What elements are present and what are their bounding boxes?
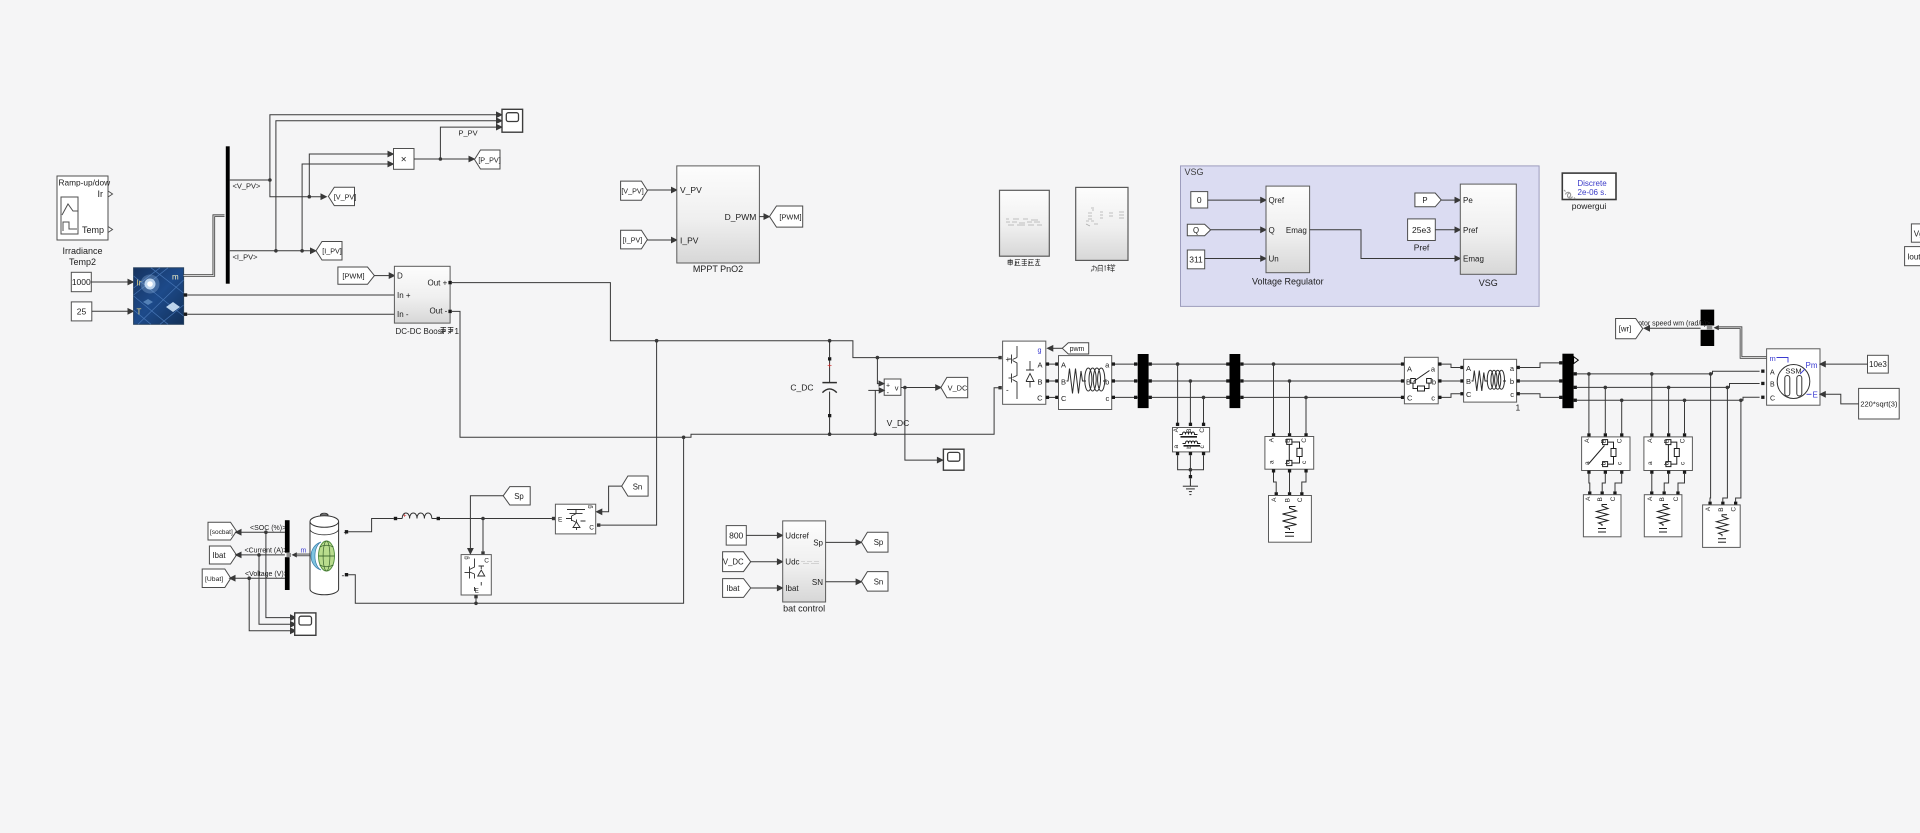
svg-text:Ibat: Ibat [727, 584, 741, 593]
scope V_DC [943, 449, 964, 470]
svg-text:Ibat: Ibat [213, 551, 227, 560]
svg-text:Pe: Pe [1463, 196, 1473, 205]
battery - port [342, 571, 349, 581]
wire I_PV net [230, 118, 502, 253]
wires breaker1 to RLC branch [1442, 364, 1461, 397]
svg-text:c: c [1106, 394, 1110, 403]
measurement bus bar 2 [1138, 354, 1152, 408]
svg-text:b: b [1510, 377, 1514, 386]
wire Current to Ibat and scope [236, 552, 296, 627]
wire P to Pe [1441, 198, 1460, 203]
ground symbol [1183, 478, 1198, 494]
goto tag Ibat [209, 546, 236, 564]
svg-text:B: B [1285, 498, 1292, 502]
wire 800 to Udcref [746, 533, 782, 538]
svg-text:c: c [1431, 394, 1435, 403]
svg-text:P: P [1422, 196, 1427, 205]
subsystem power calculation (CJK label) [1076, 187, 1128, 260]
wire v out to V_DC goto and scope [901, 385, 943, 463]
svg-text:g: g [1038, 345, 1042, 354]
svg-text:v: v [895, 384, 899, 393]
svg-text:+: + [886, 382, 890, 389]
arrow into selector [1714, 325, 1719, 330]
subsystem VSG [1460, 184, 1516, 288]
from tag pwm feeding inverter g [1062, 343, 1088, 354]
svg-text:C: C [1673, 496, 1680, 501]
inductor L [394, 513, 440, 521]
goto tag [P_PV] [475, 150, 501, 169]
svg-text:pwm: pwm [1070, 346, 1085, 353]
scope P_PV [502, 109, 523, 132]
goto tag V_DC [941, 377, 968, 397]
svg-text:Temp: Temp [82, 225, 104, 235]
bus wire battery m to selector [292, 548, 311, 558]
wire DC- to v minus input [868, 388, 884, 434]
svg-text:A: A [1584, 438, 1591, 443]
wires inverter ABC to filter [1046, 362, 1059, 399]
svg-text:Sn: Sn [633, 482, 643, 491]
bus selector 1 (PV measurements) [226, 146, 230, 283]
svg-text:[I_PV]: [I_PV] [322, 247, 342, 256]
wire DC+ rail (Out+ to inverter +) [452, 283, 1002, 360]
svg-text:[PWM]: [PWM] [342, 271, 364, 280]
from tag [PWM] feeding DC-DC D [338, 267, 375, 284]
svg-text:Q: Q [1269, 226, 1275, 235]
svg-text:Ibat: Ibat [785, 584, 799, 593]
svg-text:[V_PV]: [V_PV] [334, 192, 356, 201]
measurement bus bar 3 [1226, 354, 1243, 408]
svg-text:E: E [474, 588, 479, 595]
wire 10e3 to Pm [1820, 362, 1868, 367]
wire 25 to PV T [92, 309, 134, 314]
svg-text:A: A [1705, 506, 1712, 511]
label DC-DC Boost (CJK drawn) [396, 327, 460, 336]
wire inductor to IGBT1 E with tap down to IGBT2 [440, 517, 555, 555]
block PV Array (blue panel image) [134, 268, 184, 325]
svg-text:Udc: Udc [785, 558, 799, 567]
svg-text:1: 1 [1516, 403, 1521, 413]
three-phase breaker 2 (right, with switch) [1582, 433, 1630, 474]
constant 10e3 [1868, 355, 1889, 373]
wire Sn to IGBT1 gate [597, 486, 622, 514]
three-phase breaker (load feeder) [1265, 433, 1314, 472]
svg-text:P_PV: P_PV [459, 129, 478, 138]
wires transformer to ground [1178, 455, 1204, 478]
svg-text:powergui: powergui [1572, 201, 1607, 211]
svg-text:+: + [827, 361, 832, 370]
constant 25 [71, 302, 92, 321]
wire Ibat to bat control [751, 585, 783, 590]
svg-text:A: A [1269, 437, 1276, 442]
svg-text:D_PWM: D_PWM [725, 212, 757, 222]
svg-text:Temp2: Temp2 [69, 257, 96, 267]
svg-text:B: B [1061, 377, 1066, 386]
svg-text:×: × [401, 155, 407, 166]
svg-text:Udcref: Udcref [785, 531, 809, 540]
wire DC+ to v plus input [877, 358, 884, 386]
goto tag [Ubat] [202, 569, 231, 588]
svg-text:A: A [1770, 369, 1775, 376]
svg-text:1000: 1000 [72, 277, 91, 287]
wire 311 to Un [1205, 256, 1266, 261]
svg-text:[P_PV]: [P_PV] [478, 155, 500, 164]
svg-text:c: c [1510, 390, 1514, 399]
subsystem Voltage Regulator [1252, 186, 1324, 287]
wires RLC branch to bar4 [1520, 363, 1559, 398]
svg-text:<Current (A)>: <Current (A)> [245, 548, 288, 555]
voltage measurement block v [884, 379, 901, 397]
from tag Q [1187, 224, 1210, 235]
svg-text:g: g [588, 505, 594, 508]
subsystem DC-DC Boost converter 1 [394, 266, 451, 323]
wire DC- rail (Out- to inverter -) [452, 311, 1002, 439]
wires bar3 to breaker1 with taps down to load breaker [1244, 362, 1405, 433]
svg-text:25e3: 25e3 [1412, 225, 1431, 235]
from tag [V_PV] feeding MPPT [621, 181, 648, 200]
svg-text:In -: In - [397, 310, 409, 319]
svg-text:2e-06 s.: 2e-06 s. [1578, 188, 1607, 197]
three-phase RLC load 4 (direct) [1703, 502, 1741, 548]
svg-text:Ir: Ir [98, 189, 104, 199]
svg-text:[Ubat]: [Ubat] [205, 576, 223, 583]
measurement bus bar 4 [1559, 354, 1578, 409]
svg-text:0: 0 [1197, 195, 1202, 205]
PV electrical ports + and - [184, 293, 187, 316]
from tag [I_PV] feeding MPPT [621, 230, 648, 249]
wire SN out [826, 579, 862, 584]
block Vg (clipped at edge) [1911, 224, 1920, 242]
svg-text:[V_PV]: [V_PV] [621, 186, 643, 195]
svg-text:C: C [1466, 390, 1472, 399]
svg-text:[socbat]: [socbat] [210, 529, 233, 536]
svg-text:<Voltage (V)>: <Voltage (V)> [245, 571, 288, 578]
grounding transformer block [1173, 423, 1210, 455]
goto tag [socbat] [208, 522, 237, 540]
svg-text:Emag: Emag [1463, 255, 1484, 264]
svg-text:B: B [1770, 382, 1775, 389]
svg-text:C: C [1680, 438, 1687, 443]
svg-text:Sp: Sp [813, 539, 823, 548]
wire Sp to IGBT2 gate [468, 496, 503, 554]
svg-text:A: A [1647, 496, 1654, 501]
svg-text:DC-DC Boost: DC-DC Boost [396, 327, 445, 336]
svg-text:B: B [1037, 377, 1042, 386]
constant 1000 [71, 272, 91, 291]
product block (P=V*I) [394, 149, 415, 170]
from tag V_DC [723, 552, 751, 572]
capacitor C_DC [822, 341, 837, 435]
wire 0 to Qref [1208, 198, 1266, 203]
three-phase RLC load 3 [1644, 491, 1682, 536]
three-phase series RLC branch 1 [1460, 359, 1520, 402]
svg-text:[PWM]: [PWM] [779, 212, 801, 221]
svg-text:C: C [1199, 428, 1206, 433]
svg-text:C: C [589, 525, 594, 532]
wire battery + to inductor [348, 519, 394, 532]
svg-text:V_PV: V_PV [680, 185, 702, 195]
three-phase series RL filter block [1059, 356, 1112, 410]
wires breaker to RLC load [1274, 473, 1307, 493]
label gonglv jisuan [1091, 264, 1115, 272]
from tag Sp (gate) [503, 487, 530, 505]
goto tag Sp [861, 532, 888, 552]
svg-text:10e3: 10e3 [1869, 360, 1887, 369]
block Irradiance Temp2 (Ramp-up/down source) [57, 176, 113, 240]
wire battery - to bottom rail [348, 437, 683, 603]
three-phase breaker 3 (right, closed) [1644, 433, 1693, 474]
bus selector battery m [285, 520, 291, 590]
from tag P [1415, 193, 1441, 207]
svg-text:m: m [301, 548, 307, 555]
wire 220*sqrt(3) to E [1820, 392, 1859, 404]
svg-text:C: C [1297, 497, 1304, 502]
svg-text:C: C [1407, 394, 1413, 403]
svg-text:T: T [137, 308, 142, 317]
svg-text:VSG: VSG [1479, 278, 1498, 288]
svg-text:In +: In + [397, 291, 411, 300]
svg-text:A: A [1407, 365, 1412, 374]
from tag Sn (gate) [622, 476, 648, 496]
svg-text:E: E [1813, 390, 1818, 399]
svg-text:800: 800 [729, 530, 743, 540]
subsystem MPPT PnO2 [677, 166, 760, 274]
svg-text:Q: Q [1193, 226, 1199, 235]
goto tag [wr] [1616, 319, 1643, 339]
wire V_PV net [230, 112, 502, 199]
svg-text:<I_PV>: <I_PV> [233, 253, 259, 262]
svg-text:A: A [1466, 364, 1471, 373]
wires breaker3 to load 3 [1652, 474, 1685, 492]
svg-text:C: C [484, 558, 489, 565]
svg-text:m: m [1770, 354, 1776, 363]
bus selector rotor speed [1701, 310, 1715, 346]
svg-text:Sp: Sp [874, 538, 884, 547]
svg-text:Pref: Pref [1414, 242, 1430, 252]
svg-text:Sn: Sn [874, 578, 884, 587]
svg-text:Irradiance: Irradiance [62, 246, 102, 256]
battery + port [344, 528, 349, 537]
scope battery [295, 613, 316, 635]
svg-text:SN: SN [812, 578, 823, 587]
svg-text:C: C [1617, 438, 1624, 443]
svg-text:Ir: Ir [137, 279, 142, 288]
wire [I_PV] to MPPT I_PV [647, 237, 676, 242]
svg-text:VSG: VSG [1185, 167, 1204, 177]
svg-text:25: 25 [77, 306, 87, 316]
wire [V_PV] to MPPT V_PV [647, 187, 676, 192]
goto tag Sn [861, 572, 888, 592]
IGBT2 E to rail [474, 595, 478, 605]
svg-text:Out -: Out - [430, 306, 448, 315]
svg-text:A: A [1647, 438, 1654, 443]
svg-text:I_PV: I_PV [680, 236, 699, 246]
wire V_DC to Udc [751, 559, 783, 564]
powergui block [1562, 173, 1616, 211]
svg-text:SSM: SSM [1785, 367, 1801, 376]
wire MPPT D_PWM to [PWM] [759, 214, 769, 219]
svg-text:C: C [1301, 438, 1308, 443]
wire 1000 to PV Ir [91, 279, 133, 284]
svg-text:Voltage Regulator: Voltage Regulator [1252, 277, 1324, 287]
IGBT2 (buck-boost low side) [461, 555, 491, 595]
svg-text:m: m [172, 273, 179, 282]
subsystem bat control [783, 521, 826, 613]
battery block [310, 513, 339, 595]
constant 0 (Qref) [1191, 192, 1208, 208]
svg-text:-: - [1006, 385, 1009, 394]
goto tag [I_PV] [316, 242, 342, 261]
svg-text:C: C [1770, 395, 1775, 402]
svg-text:A: A [1173, 427, 1180, 432]
svg-text:C: C [1731, 507, 1738, 512]
svg-text:[wr]: [wr] [1619, 325, 1632, 334]
svg-text:Vg: Vg [1914, 229, 1920, 238]
svg-text:V_DC: V_DC [723, 558, 744, 567]
svg-text:220*sqrt(3): 220*sqrt(3) [1860, 400, 1898, 409]
wire product out to [P_PV] and scope [414, 125, 502, 162]
IGBT1 (boost high side) [555, 504, 595, 534]
wire Q to regulator [1211, 227, 1266, 232]
VSG area panel [1181, 166, 1540, 307]
wire PV + to DC-DC In+ [187, 294, 394, 296]
synchronous machine SSM [1761, 349, 1820, 405]
svg-text:Pref: Pref [1463, 226, 1478, 235]
wire 25e3 to Pref [1435, 227, 1460, 232]
constant 311 (Un) [1187, 250, 1204, 269]
svg-text:Sp: Sp [514, 492, 524, 501]
three-phase RLC load 2 [1583, 491, 1621, 536]
bus wire machine m to selector [1717, 328, 1767, 358]
constant 220*sqrt(3) [1859, 388, 1900, 419]
wires breaker2 to load 2 [1589, 474, 1622, 492]
svg-text:b: b [1432, 377, 1436, 386]
svg-text:E: E [558, 516, 563, 523]
svg-text:C_DC: C_DC [790, 383, 813, 393]
three-phase breaker 1 (main line) [1401, 357, 1442, 404]
svg-text:a: a [1269, 460, 1276, 464]
goto tag [V_PV] [328, 187, 356, 205]
wire [PWM] to D [374, 273, 394, 278]
svg-text:A: A [1037, 360, 1042, 369]
svg-text:C: C [1061, 394, 1067, 403]
wires bar4 to machine with load taps [1577, 371, 1760, 501]
svg-text:Emag: Emag [1286, 226, 1307, 235]
svg-text:Un: Un [1269, 255, 1279, 264]
svg-text:1: 1 [455, 327, 460, 336]
wire SOC to socbat and scope [236, 530, 296, 621]
wire PV - to DC-DC In- [187, 313, 394, 315]
constant 800 [726, 526, 746, 546]
svg-text:C: C [1037, 394, 1043, 403]
subsystem voltage-current loop (CJK label) [1000, 190, 1050, 256]
svg-text:Pm: Pm [1806, 361, 1818, 370]
svg-text:B: B [1597, 497, 1604, 501]
label dianya dianliu huan [1008, 259, 1040, 266]
wires bar2 to bar3 with taps to transformer [1152, 362, 1230, 424]
svg-text:A: A [1061, 361, 1066, 370]
svg-text:bat control: bat control [783, 603, 825, 613]
svg-text:<V_PV>: <V_PV> [233, 182, 262, 191]
svg-text:Ramp-up/dow: Ramp-up/dow [59, 178, 112, 188]
bus wire PV m to Bus Selector1 [184, 216, 225, 276]
svg-text:Out +: Out + [428, 278, 448, 287]
svg-text:Discrete: Discrete [1577, 179, 1607, 188]
svg-text:Qref: Qref [1269, 196, 1285, 205]
svg-text:A: A [1585, 496, 1592, 501]
svg-text:B: B [1466, 377, 1471, 386]
svg-text:C: C [1610, 496, 1617, 501]
wire Sp out [826, 540, 862, 545]
svg-text:D: D [397, 271, 403, 280]
wire IGBT1 C to DC+ [597, 341, 657, 527]
svg-text:V_DC: V_DC [887, 418, 910, 428]
svg-text:MPPT PnO2: MPPT PnO2 [693, 264, 743, 274]
svg-text:A: A [1271, 497, 1278, 502]
svg-text:a: a [1173, 445, 1180, 449]
wire pwm to g [1048, 346, 1063, 351]
svg-text:b: b [1105, 377, 1109, 386]
wire regulator Emag to VSG Emag [1310, 230, 1461, 261]
svg-text:-: - [342, 571, 345, 581]
wires filter to measurement bar2 [1112, 362, 1138, 399]
inverter (Universal Bridge IGBT) [1003, 341, 1046, 404]
svg-text:[I_PV]: [I_PV] [623, 235, 643, 244]
block Iout (clipped at edge) [1905, 247, 1920, 266]
svg-text:V_DC: V_DC [948, 383, 968, 392]
goto tag [PWM] [770, 206, 803, 227]
svg-text:B: B [1718, 507, 1725, 511]
svg-text:Iout: Iout [1907, 253, 1920, 262]
three-phase series RLC load 1 [1269, 492, 1312, 542]
constant 25e3 Pref [1408, 219, 1436, 252]
svg-text:<SOC (%)>: <SOC (%)> [250, 525, 286, 532]
svg-text:g: g [464, 556, 470, 559]
svg-text:a: a [1647, 461, 1654, 465]
svg-text:311: 311 [1189, 254, 1203, 264]
wire selector to [wr] [1644, 326, 1700, 331]
wire Voltage to Ubat and scope [230, 576, 296, 634]
svg-text:B: B [1659, 497, 1666, 501]
from tag Ibat [723, 579, 751, 598]
